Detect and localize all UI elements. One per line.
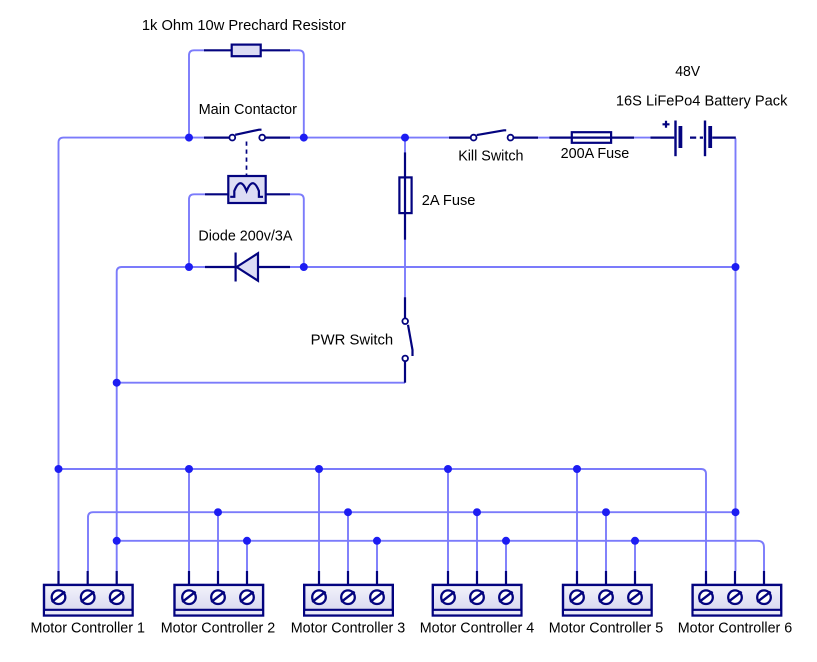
contactor actuation dashed link <box>246 142 248 176</box>
svg-text:Motor Controller 2: Motor Controller 2 <box>161 621 276 637</box>
switch S1 Kill Switch <box>449 130 538 140</box>
label Main Contactor <box>199 102 297 118</box>
node A PWR row tap <box>113 379 121 387</box>
label Motor Controller 4 <box>420 621 535 637</box>
wire main row middle (contactor to kill switch) <box>290 137 449 139</box>
node bus2 / MC5 <box>602 508 610 516</box>
wire precharge resistor right leg <box>290 50 304 137</box>
svg-text:48V: 48V <box>675 64 700 80</box>
node bus2 / MC4 <box>473 508 481 516</box>
wire bus1 drop to MC2 pin1 <box>188 469 190 571</box>
node diode row / battery negative <box>732 263 740 271</box>
terminal block Motor Controller 3 <box>304 571 393 616</box>
wire battery negative drop to bus2 and MC6 pin2 <box>735 138 737 571</box>
svg-text:1k Ohm 10w Prechard Resistor: 1k Ohm 10w Prechard Resistor <box>142 18 346 34</box>
label PWR Switch <box>311 333 394 349</box>
svg-text:2A Fuse: 2A Fuse <box>422 193 476 209</box>
terminal block Motor Controller 1 <box>44 571 133 616</box>
label Motor Controller 5 <box>549 621 664 637</box>
label resistor R1 <box>142 18 346 34</box>
label 48V <box>675 64 700 80</box>
node bus3 / MC2 <box>243 537 251 545</box>
wire coil right leg down to diode row <box>290 194 304 267</box>
node bus1 / MC5 <box>573 465 581 473</box>
wire diode row left + drop to PWR node, bus3, MC1 pin3 <box>117 267 205 571</box>
node diode row / coil right <box>300 263 308 271</box>
node bus2 / MC3 <box>344 508 352 516</box>
contactor coil K1 <box>205 176 290 203</box>
wire main row left + left drop to bus1 and MC1 pin1 <box>59 138 205 571</box>
node bus3 / MC1 <box>113 537 121 545</box>
svg-text:Motor Controller 1: Motor Controller 1 <box>30 621 145 637</box>
node main row / 2A fuse tap <box>401 134 409 142</box>
wire 2A fuse top stub <box>404 138 406 152</box>
wire 2A fuse to PWR switch <box>404 240 406 298</box>
node bus3 / MC3 <box>373 537 381 545</box>
wire bus1 drop to MC4 pin1 <box>447 469 449 571</box>
svg-text:Motor Controller 3: Motor Controller 3 <box>291 621 406 637</box>
wire bus3 drop to MC2 pin3 <box>246 541 248 571</box>
node main row / resistor-contactor right <box>300 134 308 142</box>
switch S2 PWR Switch (vertical) <box>402 297 412 383</box>
node main row / resistor-contactor left <box>185 134 193 142</box>
node bus3 / MC5 <box>631 537 639 545</box>
contactor switch K1 contacts <box>204 130 290 141</box>
node bus2 / MC2 <box>214 508 222 516</box>
svg-text:Motor Controller 6: Motor Controller 6 <box>678 621 793 637</box>
wire bus3 drop to MC4 pin3 <box>505 541 507 571</box>
node bus1 / MC1 <box>55 465 63 473</box>
wire diode row right to battery negative vertical <box>290 266 736 268</box>
node bus1 / MC3 <box>315 465 323 473</box>
wire bus3 switched rail with right drop to MC6 pin3 <box>117 541 764 571</box>
node bus3 / MC4 <box>502 537 510 545</box>
diode D1 200v/3A <box>205 253 290 282</box>
node bus1 / MC4 <box>444 465 452 473</box>
label 200A Fuse <box>561 146 630 162</box>
label Kill Switch <box>458 148 523 164</box>
label Motor Controller 1 <box>30 621 145 637</box>
svg-text:Motor Controller 5: Motor Controller 5 <box>549 621 664 637</box>
battery BT1 48V pack <box>651 121 736 157</box>
node bus2 / battery negative <box>732 508 740 516</box>
wire bus2 drop to MC3 pin2 <box>347 512 349 571</box>
fuse F2 200A <box>549 132 634 143</box>
wire bus1 drop to MC5 pin1 <box>576 469 578 571</box>
label 16S LiFePo4 Battery Pack <box>616 93 788 109</box>
wire bus3 drop to MC5 pin3 <box>634 541 636 571</box>
node diode row / coil left <box>185 263 193 271</box>
wire bus1 drop to MC3 pin1 <box>318 469 320 571</box>
wire bus2 negative rail with left drop to MC1 pin2 <box>88 512 736 571</box>
label Diode 200v/3A <box>198 228 292 244</box>
label 2A Fuse <box>422 193 476 209</box>
svg-text:16S LiFePo4 Battery Pack: 16S LiFePo4 Battery Pack <box>616 93 788 109</box>
wire bus3 drop to MC3 pin3 <box>376 541 378 571</box>
wire PWR switch row to node A <box>117 382 405 384</box>
svg-text:Main Contactor: Main Contactor <box>199 102 297 118</box>
terminal block Motor Controller 5 <box>563 571 652 616</box>
wire bus2 drop to MC2 pin2 <box>217 512 219 571</box>
node bus1 / MC2 <box>185 465 193 473</box>
wire bus2 drop to MC4 pin2 <box>476 512 478 571</box>
label Motor Controller 3 <box>291 621 406 637</box>
terminal block Motor Controller 4 <box>433 571 522 616</box>
wire bus1 positive rail with right drop to MC6 pin1 <box>59 469 707 571</box>
label Motor Controller 6 <box>678 621 793 637</box>
svg-text:Motor Controller 4: Motor Controller 4 <box>420 621 535 637</box>
wire main row between 200A fuse and battery <box>634 137 651 139</box>
terminal block Motor Controller 6 <box>693 571 782 616</box>
svg-text:Kill Switch: Kill Switch <box>458 148 523 164</box>
wire bus2 drop to MC5 pin2 <box>605 512 607 571</box>
svg-text:200A Fuse: 200A Fuse <box>561 146 630 162</box>
wire coil left leg down to diode row <box>189 194 205 267</box>
wire precharge resistor left leg <box>189 50 205 137</box>
label Motor Controller 2 <box>161 621 276 637</box>
wire main row between kill switch and 200A fuse <box>538 137 550 139</box>
resistor R1 1k Ohm 10w precharge <box>204 45 290 57</box>
svg-text:Diode 200v/3A: Diode 200v/3A <box>198 228 292 244</box>
svg-text:PWR Switch: PWR Switch <box>311 333 394 349</box>
terminal block Motor Controller 2 <box>175 571 264 616</box>
fuse F1 2A (vertical) <box>399 152 411 239</box>
